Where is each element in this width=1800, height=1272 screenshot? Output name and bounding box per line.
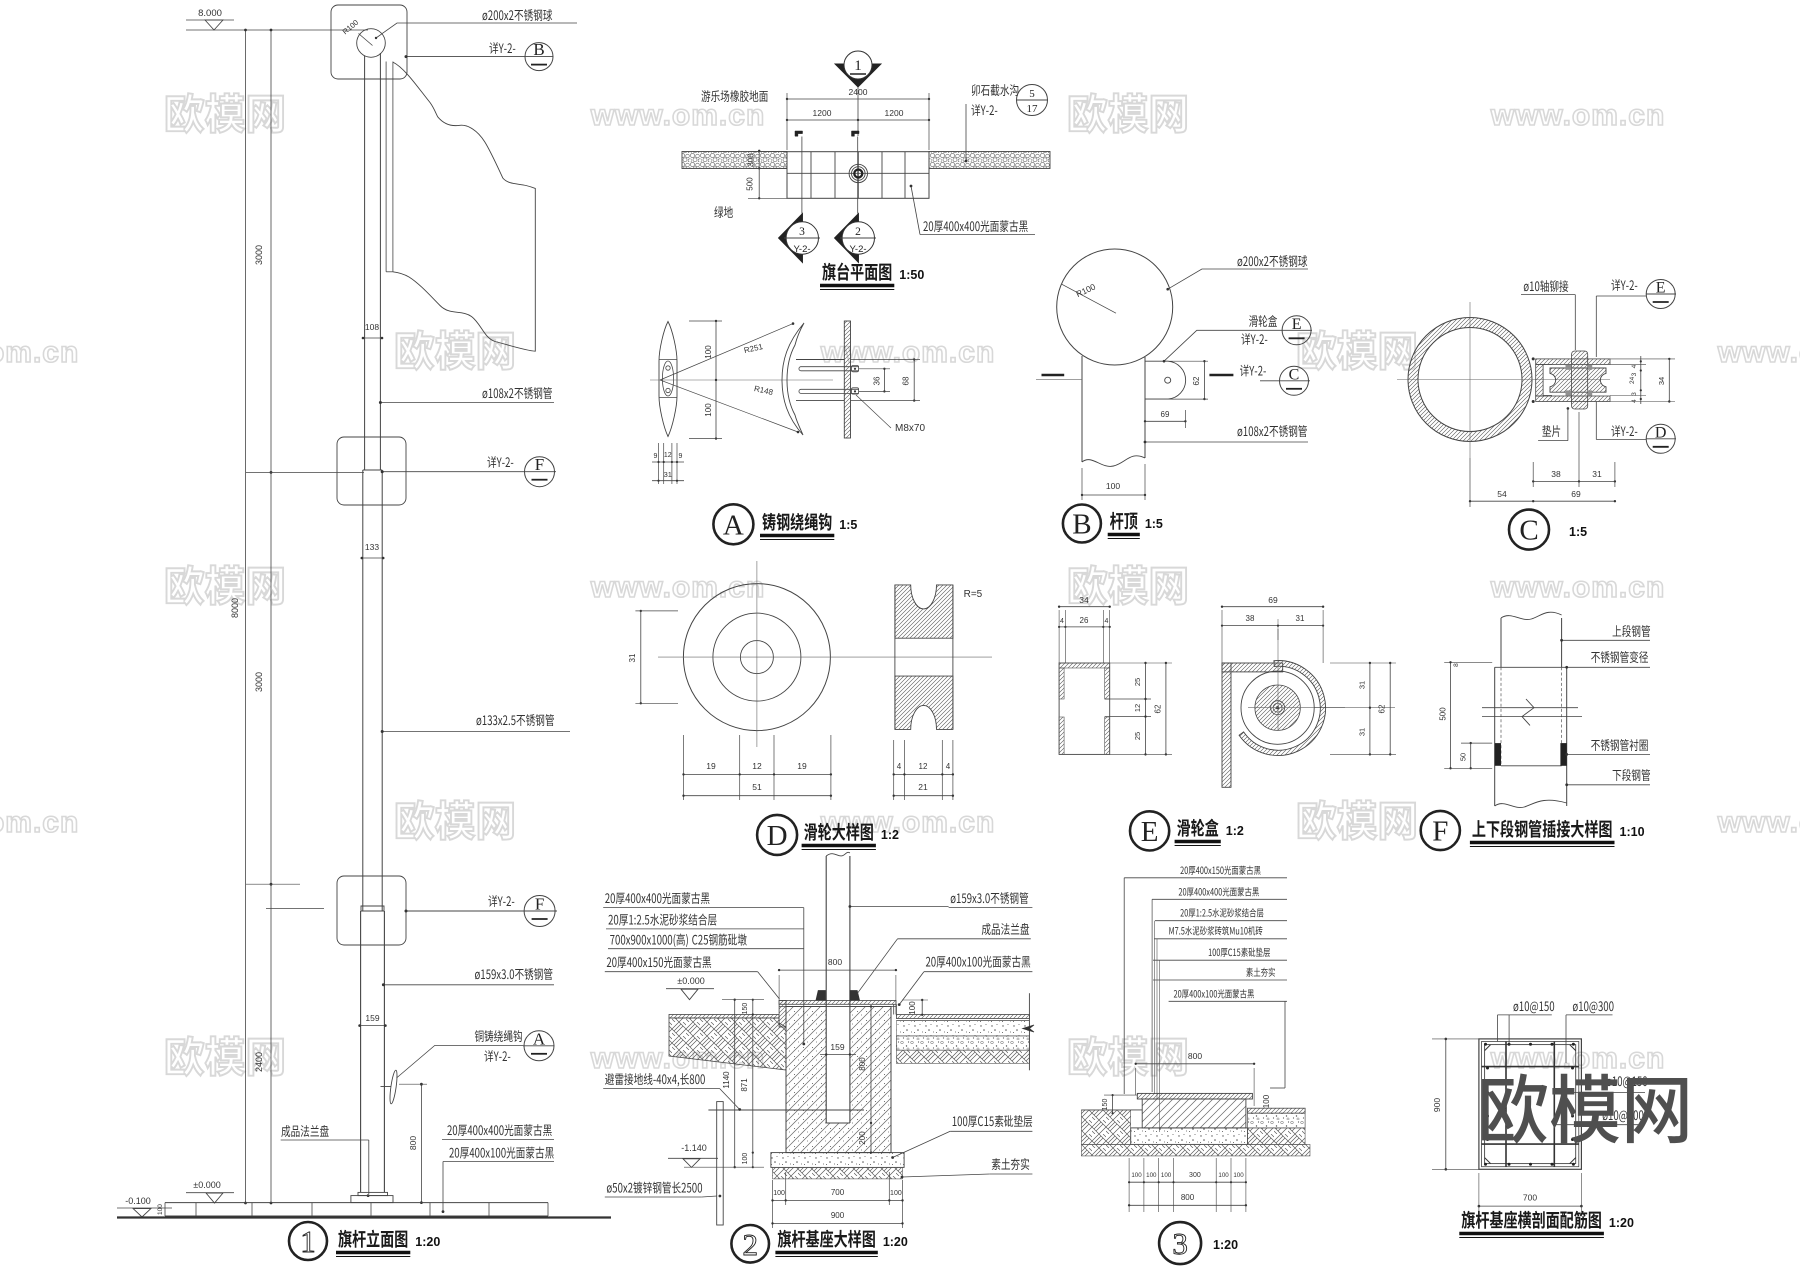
svg-text:9: 9	[679, 453, 683, 460]
svg-text:www.om.cn: www.om.cn	[590, 99, 766, 132]
right tile band	[1248, 1108, 1306, 1113]
svg-text:-1.140: -1.140	[681, 1143, 707, 1153]
dim 700 bottom	[1479, 1205, 1582, 1207]
svg-text:3: 3	[1631, 372, 1638, 376]
label concrete pier	[610, 934, 747, 948]
svg-text:2: 2	[742, 1227, 758, 1262]
svg-text:www.om.cn: www.om.cn	[820, 806, 996, 839]
axle dim ticks right	[1640, 356, 1642, 404]
svg-text:D: D	[1655, 424, 1667, 441]
svg-text:www.om.cn: www.om.cn	[1490, 1042, 1666, 1075]
svg-text:17: 17	[1027, 103, 1039, 115]
label rebar 10@300 top	[1573, 1001, 1614, 1013]
pebble drain strip right	[929, 152, 1050, 169]
svg-text:5: 5	[1029, 88, 1035, 100]
svg-text:100: 100	[1233, 1172, 1244, 1179]
svg-text:www.om.cn: www.om.cn	[1490, 99, 1666, 132]
pier top tile band hatched	[779, 1001, 896, 1005]
label rebar 10@150 top	[1514, 1001, 1555, 1013]
svg-text:E: E	[1656, 280, 1666, 297]
dims below section 4 12 4 21	[893, 740, 895, 800]
svg-text:800: 800	[408, 1136, 418, 1150]
svg-text:68: 68	[902, 376, 911, 385]
grounding rod	[717, 1102, 724, 1225]
pole upper segment ø108	[364, 56, 366, 470]
center cross	[756, 561, 758, 747]
svg-text:9: 9	[654, 453, 658, 460]
dims below circles 19 12 19 51	[683, 735, 685, 800]
platform tile cap hatched	[1137, 1093, 1252, 1099]
svg-text:Y-2-: Y-2-	[793, 244, 810, 255]
title C	[1509, 510, 1549, 550]
rope hook cleat on pole	[389, 1070, 399, 1104]
labels stone tiles right	[447, 1124, 551, 1136]
flag outline	[393, 62, 535, 351]
svg-text:38: 38	[1246, 614, 1255, 623]
svg-text:E: E	[1292, 316, 1302, 333]
nuts right of wall	[852, 366, 859, 372]
bottom dims 100 700 100 900	[772, 1180, 774, 1228]
svg-text:4: 4	[946, 762, 951, 771]
ball finial	[357, 29, 386, 58]
svg-text:100: 100	[157, 1204, 164, 1215]
title B pole top	[1063, 505, 1101, 543]
housing arc band	[1239, 661, 1325, 756]
svg-text:800: 800	[1181, 1193, 1195, 1202]
bubble E leader top	[1611, 279, 1637, 291]
svg-text:69: 69	[1161, 410, 1170, 419]
svg-text:24: 24	[1629, 376, 1636, 384]
svg-text:100: 100	[890, 1190, 902, 1197]
pole body	[1081, 356, 1083, 462]
svg-text:900: 900	[1432, 1098, 1442, 1112]
dims right 31 31 62	[1369, 663, 1371, 754]
dim 100 100 left of hook	[715, 321, 717, 439]
dim 68	[913, 360, 915, 401]
svg-text:51: 51	[752, 782, 762, 792]
title A cast hook	[713, 504, 753, 544]
bolts M8x70	[801, 366, 859, 368]
svg-text:38: 38	[1551, 469, 1561, 479]
svg-text:800: 800	[828, 957, 842, 967]
dim 100 right step	[921, 1000, 923, 1015]
right concrete band	[1248, 1113, 1306, 1128]
svg-text:F: F	[535, 895, 544, 914]
stirrup rect	[1485, 1045, 1576, 1164]
left step tile vertical	[779, 1001, 786, 1028]
svg-text:800: 800	[858, 1057, 867, 1071]
hook base bar	[796, 359, 844, 361]
svg-text:871: 871	[740, 1078, 749, 1092]
dim 800 vertical in pier	[870, 1007, 872, 1124]
svg-text:34: 34	[1079, 595, 1089, 605]
inserted pipe dashed	[1500, 667, 1502, 766]
section marker 2	[835, 214, 859, 263]
dim 36	[883, 369, 885, 392]
svg-text:31: 31	[1592, 469, 1602, 479]
svg-text:1: 1	[300, 1224, 316, 1259]
svg-text:25: 25	[1133, 678, 1142, 686]
dim 150 left step	[1112, 1095, 1114, 1113]
svg-text:200: 200	[858, 1131, 867, 1145]
label pebble drain + bubble 5/17	[972, 84, 1019, 96]
title 1 flagpole elevation	[289, 1222, 327, 1260]
label tile 400x150	[607, 956, 711, 968]
svg-text:62: 62	[1154, 704, 1163, 713]
svg-text:R=5: R=5	[964, 589, 983, 600]
dim 900 left	[1445, 1039, 1447, 1169]
svg-text:1:20: 1:20	[415, 1235, 440, 1249]
ball finial large	[1057, 249, 1173, 365]
label tile 400x100 right	[926, 956, 1030, 968]
svg-text:2400: 2400	[849, 87, 868, 97]
dimension lines vertical	[245, 30, 247, 1203]
pulley wheel side profile	[1543, 363, 1552, 365]
upper pipe	[1500, 618, 1502, 667]
label ø108x2 pipe	[483, 387, 552, 399]
svg-text:100: 100	[1146, 1172, 1157, 1179]
svg-text:31: 31	[1296, 614, 1305, 623]
label ø133x2.5 pipe	[477, 714, 554, 726]
svg-text:12: 12	[919, 762, 928, 771]
white pole slot in pier	[826, 1007, 850, 1124]
svg-text:Y-2-: Y-2-	[849, 244, 866, 255]
pole rings center	[849, 164, 867, 182]
bubble F lower with leader	[488, 895, 514, 907]
svg-text:1200: 1200	[885, 108, 904, 118]
reducer step	[1495, 666, 1567, 668]
svg-text:4: 4	[1105, 618, 1109, 625]
dim 69 below housing	[1145, 420, 1185, 422]
svg-text:-0.100: -0.100	[125, 1196, 151, 1206]
label compacted soil	[992, 1158, 1029, 1170]
stirrup bars	[1505, 1042, 1507, 1167]
hook crescent front view	[782, 323, 804, 435]
label C15 cushion	[953, 1115, 1033, 1127]
svg-text:31: 31	[1357, 681, 1366, 689]
ground line	[117, 1216, 611, 1218]
label rebar 10@150 right	[1607, 1076, 1648, 1088]
svg-text:E: E	[1141, 816, 1159, 848]
pavement break line and arrow	[1028, 993, 1030, 1070]
title E pulley box	[1130, 811, 1169, 850]
left ground line	[1081, 1109, 1142, 1111]
svg-text:1:20: 1:20	[1609, 1216, 1634, 1230]
svg-text:1140: 1140	[722, 1071, 731, 1089]
svg-text:100: 100	[908, 1001, 917, 1015]
title plan view	[822, 263, 891, 281]
svg-text:100: 100	[1218, 1172, 1229, 1179]
svg-text:69: 69	[1571, 489, 1581, 499]
pulley cross-section hatched	[895, 585, 953, 638]
svg-text:500: 500	[746, 177, 755, 191]
right pavement bedding sparse	[896, 1021, 1029, 1036]
svg-text:300: 300	[1189, 1172, 1201, 1179]
centerline	[650, 379, 833, 381]
center cross lines	[1469, 302, 1471, 458]
right pavement concrete base	[896, 1036, 1029, 1050]
break lines with zigzag	[1482, 707, 1578, 709]
svg-text:159: 159	[830, 1042, 844, 1052]
svg-text:C: C	[1289, 366, 1300, 383]
svg-text:100: 100	[1131, 1172, 1142, 1179]
middle joint box F marker	[337, 876, 406, 945]
left soil excavation weave	[669, 1018, 786, 1070]
label rubber ground	[701, 90, 767, 102]
svg-text:B: B	[533, 40, 544, 59]
svg-text:1:20: 1:20	[1213, 1238, 1238, 1252]
title reinforcement	[1462, 1211, 1601, 1229]
svg-text:12: 12	[752, 761, 762, 771]
label galvanized pipe	[607, 1182, 702, 1194]
cleat hooks plan symbols	[795, 131, 803, 136]
soil band under footing	[773, 1167, 903, 1179]
svg-text:4: 4	[1631, 364, 1638, 368]
svg-text:www.om.cn: www.om.cn	[1490, 571, 1666, 604]
labels right	[1613, 625, 1650, 637]
svg-text:2400: 2400	[254, 1052, 264, 1072]
bubble B with leader	[489, 42, 515, 54]
wheel circles	[1241, 671, 1314, 744]
svg-text:±0.000: ±0.000	[193, 1180, 220, 1190]
svg-text:A: A	[723, 509, 744, 541]
middle joint box F marker upper	[337, 437, 406, 505]
label 400x400 tile plan	[923, 220, 1027, 232]
svg-text:54: 54	[1497, 489, 1507, 499]
svg-text:26: 26	[1080, 616, 1089, 625]
svg-text:700: 700	[1523, 1193, 1537, 1203]
label mortar layer	[608, 914, 716, 926]
svg-text:500: 500	[1438, 707, 1447, 721]
dim 200 vertical	[870, 1123, 872, 1153]
label flange right	[982, 923, 1029, 935]
right pavement tile band	[896, 1015, 1029, 1019]
pipe ring hatched	[1408, 317, 1532, 441]
svg-text:12: 12	[664, 452, 672, 459]
label green land	[714, 206, 733, 218]
brick masonry hatched	[1142, 1099, 1246, 1128]
dims below cleat 9 12 9 31	[658, 443, 660, 484]
svg-text:100: 100	[704, 345, 713, 359]
labels detail 3 right-aligned stack	[1180, 866, 1260, 875]
svg-text:900: 900	[831, 1211, 845, 1220]
bubble D leader bottom	[1611, 425, 1637, 437]
label axle rivet	[1524, 280, 1568, 292]
base slab tiles	[165, 1202, 548, 1204]
svg-text:1:5: 1:5	[1145, 517, 1163, 531]
section marker 3	[779, 214, 803, 263]
svg-text:1:5: 1:5	[839, 518, 857, 532]
grounding strap line	[708, 1109, 864, 1111]
svg-text:100: 100	[1161, 1172, 1172, 1179]
rebar dots	[1484, 1043, 1487, 1046]
radius leaders R251 R148	[660, 324, 793, 380]
label flange plate	[281, 1125, 328, 1137]
svg-text:M8x70: M8x70	[895, 423, 925, 434]
svg-text:62: 62	[1192, 376, 1201, 385]
platform tile grid	[787, 152, 929, 199]
box front view hatched walls	[1059, 663, 1110, 754]
svg-text:108: 108	[365, 322, 379, 332]
svg-text:150: 150	[1102, 1099, 1109, 1111]
dims left 8 500 50	[1444, 661, 1492, 663]
svg-text:±0.000: ±0.000	[677, 976, 704, 986]
pulley concentric circles	[683, 584, 830, 731]
svg-text:4: 4	[1060, 618, 1064, 625]
dims right of box 25 12 25 62	[1145, 663, 1147, 754]
title F pipe joint	[1421, 811, 1460, 850]
big dark watermark bottom right	[1482, 1074, 1687, 1144]
svg-text:31: 31	[1357, 728, 1366, 736]
svg-text:19: 19	[706, 761, 716, 771]
svg-text:www.om.cn: www.om.cn	[0, 336, 79, 369]
svg-text:4: 4	[1631, 399, 1638, 403]
washers gray	[1566, 365, 1572, 370]
svg-text:36: 36	[873, 376, 882, 385]
svg-text:1:2: 1:2	[1226, 824, 1244, 838]
housing dim 62	[1203, 361, 1205, 399]
joint line pole	[363, 469, 382, 471]
label washer	[1542, 425, 1560, 437]
pole lower segment ø159	[360, 911, 362, 1192]
label pipe ø108x2	[1238, 425, 1307, 437]
svg-text:25: 25	[1133, 732, 1142, 740]
bracket bars hatched	[1536, 359, 1610, 365]
svg-text:700: 700	[831, 1188, 845, 1197]
svg-text:31: 31	[628, 653, 637, 662]
svg-text:1200: 1200	[813, 108, 832, 118]
label tile 400x400	[605, 892, 709, 904]
label lightning ground wire	[605, 1073, 705, 1086]
section marker 1 top	[835, 64, 881, 87]
outer concrete rects	[1479, 1039, 1582, 1169]
label pulley box + bubble E	[1249, 315, 1277, 327]
svg-text:3000: 3000	[254, 672, 264, 692]
dim 31 left	[640, 611, 642, 703]
flag hoist rope edge	[385, 62, 387, 272]
svg-text:159: 159	[365, 1013, 379, 1023]
wall hatched	[844, 321, 850, 438]
corner hooks	[1485, 1045, 1491, 1051]
flange at pole base	[358, 1192, 388, 1195]
svg-text:2: 2	[855, 226, 861, 238]
svg-text:1:20: 1:20	[883, 1235, 908, 1249]
bubble C leader	[1240, 365, 1266, 377]
left ground tile band	[669, 1015, 779, 1019]
svg-text:100: 100	[1106, 481, 1120, 491]
label pipe right	[951, 892, 1028, 904]
label leader verticals	[1123, 878, 1125, 1094]
footing stipple	[1131, 1128, 1248, 1145]
pole top box B marker	[331, 5, 407, 79]
svg-text:F: F	[535, 455, 544, 474]
svg-text:100: 100	[1262, 1094, 1271, 1108]
bottom dims detail 3	[1128, 1158, 1130, 1212]
svg-text:19: 19	[797, 761, 807, 771]
sleeve collar	[361, 906, 384, 911]
right pavement soil weave	[896, 1050, 1029, 1063]
svg-text:C: C	[1519, 515, 1538, 547]
watermark grid	[167, 93, 284, 133]
svg-text:1:50: 1:50	[899, 268, 924, 282]
svg-text:21: 21	[918, 782, 928, 792]
svg-text:12: 12	[1133, 704, 1142, 712]
svg-text:62: 62	[1378, 704, 1387, 713]
svg-text:3: 3	[1172, 1226, 1188, 1261]
svg-text:100: 100	[773, 1190, 785, 1197]
pebble drain strip left	[682, 152, 787, 169]
svg-text:F: F	[1432, 816, 1448, 848]
pulley housing on pole	[1145, 360, 1168, 362]
step edge right	[893, 1004, 895, 1014]
pier concrete hatched	[786, 1007, 891, 1153]
svg-text:8.000: 8.000	[198, 8, 222, 19]
title D pulley detail	[757, 815, 797, 855]
svg-text:50: 50	[1459, 753, 1468, 761]
svg-text:D: D	[767, 820, 788, 852]
svg-text:www.om.cn: www.om.cn	[1717, 336, 1800, 369]
svg-text:8000: 8000	[230, 598, 240, 618]
label ø200x2 stainless ball	[483, 9, 553, 21]
hook height dim 800	[420, 1084, 422, 1202]
svg-text:69: 69	[1268, 595, 1278, 605]
svg-text:www.om.cn: www.om.cn	[590, 571, 766, 604]
svg-text:3000: 3000	[254, 245, 264, 265]
svg-text:31: 31	[664, 470, 672, 479]
radius line R100	[1062, 284, 1116, 313]
title 2 base detail	[731, 1225, 769, 1263]
svg-text:www.om.cn: www.om.cn	[1717, 806, 1800, 839]
cleat side view lens	[659, 322, 677, 437]
axle hatched	[1572, 351, 1588, 409]
bubble F upper with leader	[487, 456, 513, 468]
svg-text:1:10: 1:10	[1620, 825, 1645, 839]
svg-text:300: 300	[747, 153, 756, 167]
label cast hook + bubble A	[475, 1030, 522, 1042]
svg-text:1:2: 1:2	[881, 828, 899, 842]
title 3	[1159, 1222, 1201, 1264]
svg-text:100: 100	[742, 1153, 749, 1165]
left dims 1140 871 150 100	[734, 1000, 736, 1167]
label ball ø200x2	[1238, 255, 1308, 267]
label rebar 10@300 right	[1603, 1110, 1644, 1122]
svg-text:1:5: 1:5	[1569, 525, 1587, 539]
svg-text:8: 8	[1453, 663, 1460, 667]
box side view L-wall hatched	[1222, 663, 1231, 787]
pole middle segment ø133	[362, 470, 364, 911]
footing stippled	[771, 1153, 904, 1168]
flange pads black	[816, 991, 826, 1001]
soil weave areas	[1081, 1110, 1130, 1145]
liner rings black	[1495, 743, 1501, 766]
lower pipe	[1494, 667, 1496, 806]
svg-text:www.om.cn: www.om.cn	[0, 806, 79, 839]
centerlines	[1277, 619, 1279, 730]
svg-text:133: 133	[365, 542, 379, 552]
svg-text:150: 150	[742, 1003, 749, 1015]
svg-text:3: 3	[799, 226, 805, 238]
svg-text:34: 34	[1657, 377, 1666, 385]
label ø159x3.0 pipe	[475, 968, 552, 980]
centerline dashes	[1042, 374, 1065, 377]
pole in base	[825, 856, 827, 1123]
svg-text:1: 1	[854, 58, 862, 74]
svg-text:4: 4	[897, 762, 902, 771]
svg-text:B: B	[1072, 509, 1091, 541]
pole break wave	[1082, 456, 1145, 467]
svg-text:800: 800	[1188, 1051, 1202, 1061]
svg-text:100: 100	[704, 403, 713, 417]
